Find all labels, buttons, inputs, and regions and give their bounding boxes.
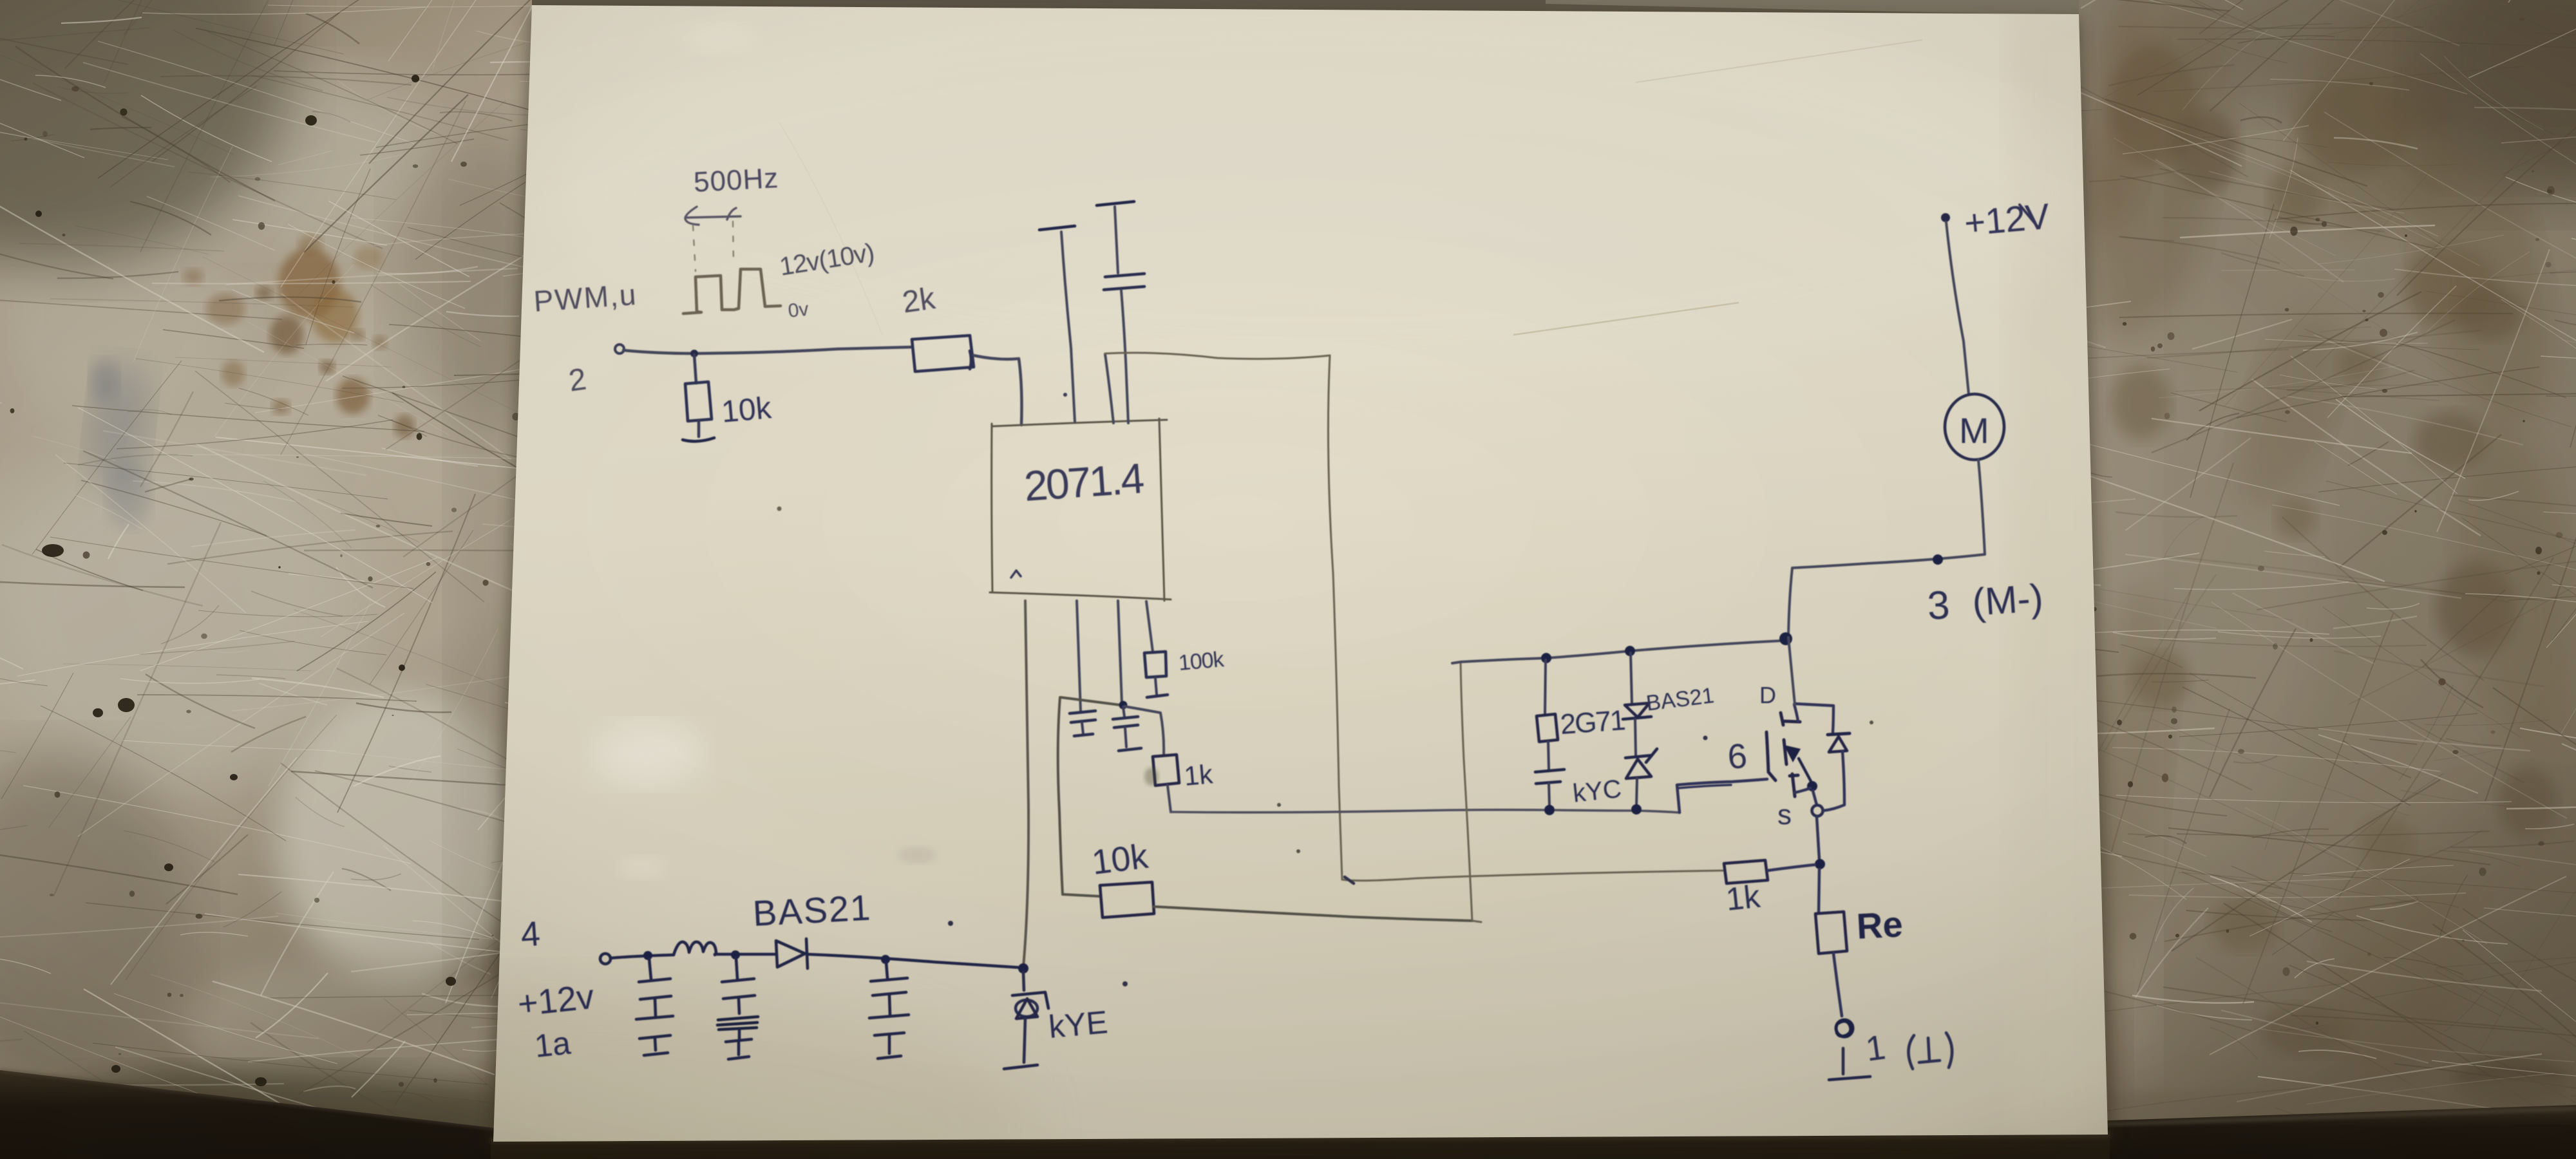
body diode xyxy=(1796,704,1833,733)
wire +12V to motor xyxy=(1946,222,1969,394)
resistor 1k (IC out) xyxy=(1153,755,1179,786)
capacitor at pin2 xyxy=(1070,711,1095,713)
capacitor at pin3 xyxy=(1123,707,1124,717)
source node circle xyxy=(1812,806,1823,816)
junction xyxy=(731,950,740,959)
resistor 10k (feedback) xyxy=(1100,882,1154,918)
junction kYE node xyxy=(1018,963,1028,974)
capacitor C1 xyxy=(649,959,651,979)
IC pin to long wire xyxy=(1105,354,1113,423)
wire loop to 10k xyxy=(1061,697,1126,706)
resistor 10k (input pulldown) xyxy=(694,355,696,383)
ground xyxy=(1004,1065,1037,1069)
IC pin 3 wire xyxy=(1118,601,1122,703)
capacitor C3 xyxy=(886,962,887,978)
IC pin 4 wire xyxy=(1146,601,1153,652)
junction xyxy=(1541,653,1551,663)
IC pin 1 wire down to common xyxy=(1023,601,1028,967)
square wave xyxy=(683,269,781,314)
wire gate staircase xyxy=(1677,779,1767,813)
junction drain node xyxy=(1779,632,1792,645)
terminal 4 xyxy=(600,954,611,964)
arrow 500Hz period xyxy=(685,207,741,225)
zener kYC xyxy=(1625,755,1652,758)
wire PWM input xyxy=(623,347,912,353)
resistor 2G71 xyxy=(1545,660,1546,714)
zener kYE xyxy=(1023,972,1024,990)
resistor 100k xyxy=(1144,652,1166,677)
terminal 1 xyxy=(1836,1020,1853,1037)
wire source down xyxy=(1817,817,1819,860)
junction xyxy=(881,955,890,964)
wire 10k to snubber top rail xyxy=(1154,907,1472,921)
wire pin3 node to 1k xyxy=(1124,706,1164,755)
ground xyxy=(683,438,714,441)
snubber top rail xyxy=(1452,641,1783,663)
supply flag (IC pin) xyxy=(1039,226,1075,230)
junction xyxy=(1933,554,1943,565)
MOSFET arrow xyxy=(1799,759,1813,785)
IC pin 2 wire xyxy=(1077,601,1081,711)
MOSFET Q1 xyxy=(1766,732,1776,780)
junction xyxy=(1625,646,1635,656)
wire 2k to IC pin xyxy=(974,355,1022,425)
dashed guides xyxy=(693,221,734,271)
ink dots xyxy=(1063,393,1067,397)
inductor squiggle xyxy=(674,942,716,955)
capacitor C2 (electrolytic) xyxy=(736,958,737,979)
terminal 2 xyxy=(615,344,624,353)
ground xyxy=(1829,1077,1870,1080)
junction xyxy=(690,350,698,357)
capacitor (snubber) xyxy=(1535,769,1564,772)
resistor 2k xyxy=(912,335,974,372)
decoupling capacitor at IC top xyxy=(1097,202,1134,205)
diode BAS21 (snubber) xyxy=(1631,653,1632,703)
resistor Re xyxy=(1819,869,1819,912)
wire 1k to snubber rail xyxy=(1168,786,1171,812)
resistor 1k (gate pulldown) xyxy=(1724,860,1768,883)
motor M xyxy=(1945,394,2004,460)
wire motor to drain node xyxy=(1788,460,1985,636)
junction xyxy=(1119,701,1128,710)
node +12V xyxy=(1941,213,1950,222)
wire long top loop xyxy=(1105,353,1330,359)
wire gate feed xyxy=(1342,871,1723,881)
wire +12V rail xyxy=(611,955,674,958)
junction xyxy=(643,951,652,960)
diode BAS21 (supply) xyxy=(776,941,805,967)
IC 2071.4 xyxy=(990,419,1171,601)
